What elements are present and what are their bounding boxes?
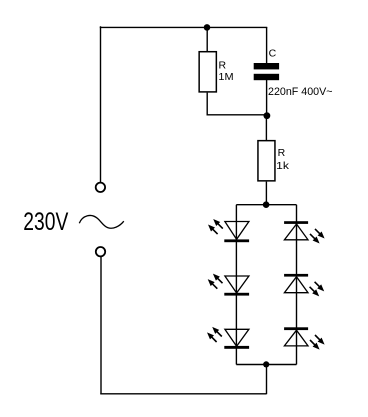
LED D6 (right column bottom), cathode up	[284, 327, 308, 346]
svg-text:R: R	[219, 60, 227, 72]
LED D2 (left column middle), cathode down	[224, 276, 249, 296]
svg-text:1k: 1k	[276, 160, 290, 172]
svg-text:230V: 230V	[23, 208, 68, 236]
wire: lead from R 1k down to LED top rail	[265, 182, 267, 205]
LED D1 (left column top), cathode down	[224, 222, 249, 243]
terminal: lower supply terminal (open circle)	[96, 247, 105, 256]
wire: lead from top wire down to capacitor C	[266, 27, 268, 64]
resistor R2 body (R 1k)	[258, 141, 275, 181]
symbol: light arrows of D1	[208, 219, 223, 234]
symbol: light arrows of D2	[208, 274, 223, 289]
svg-text:C: C	[269, 47, 277, 59]
symbol: light arrows of D5	[310, 282, 325, 297]
svg-text:220nF 400V~: 220nF 400V~	[268, 86, 333, 98]
wire: lead from capacitor C down to junction	[266, 80, 268, 116]
wire: vertical from bottom LED rail down to return wire	[266, 364, 268, 394]
LED D3 (left column bottom), cathode down	[224, 329, 249, 349]
wire: bottom horizontal return wire	[100, 393, 266, 395]
LED D5 (right column middle), cathode up	[284, 274, 308, 293]
symbol: light arrows of D3	[207, 327, 222, 342]
LED D4 (right column top), cathode up	[284, 221, 308, 240]
wire: lead from R 1M down to junction	[206, 93, 208, 116]
resistor R1 body (R 1M)	[199, 52, 216, 92]
terminal: upper supply terminal (open circle)	[96, 183, 105, 192]
wire: right LED column vertical	[296, 205, 298, 365]
symbol: light arrows of D4	[310, 229, 325, 244]
wire: left vertical from top corner down to upper supply terminal	[100, 26, 102, 182]
capacitor C1 top plate	[254, 63, 279, 69]
node: junction of R 1M / C branch with series branch	[264, 112, 271, 119]
node: top junction of R 1M branch	[204, 24, 211, 31]
wire: bottom rail of LED bridge	[236, 364, 296, 366]
wire: lead from junction down to resistor R 1k	[265, 116, 267, 141]
node: junction of LED bottom rail with return wire	[263, 361, 269, 367]
symbol: light arrows of D6	[310, 335, 325, 350]
svg-text:1M: 1M	[218, 71, 233, 83]
wire: left vertical from lower terminal down to bottom rail	[100, 257, 102, 394]
wire: top rail of LED bridge	[236, 204, 296, 206]
node: junction of R 1k lead with LED top rail	[263, 201, 270, 208]
wire: horizontal from R 1M bottom lead to capacitor branch	[207, 114, 267, 116]
wire: left LED column vertical	[235, 205, 237, 365]
capacitor C1 bottom plate	[254, 74, 279, 80]
wire: lead from top wire to resistor R 1M	[206, 27, 208, 52]
wire: top horizontal from left branch to capacitor branch	[100, 26, 267, 28]
symbol: AC tilde of the 230V source	[79, 215, 124, 228]
svg-text:R: R	[278, 147, 286, 159]
